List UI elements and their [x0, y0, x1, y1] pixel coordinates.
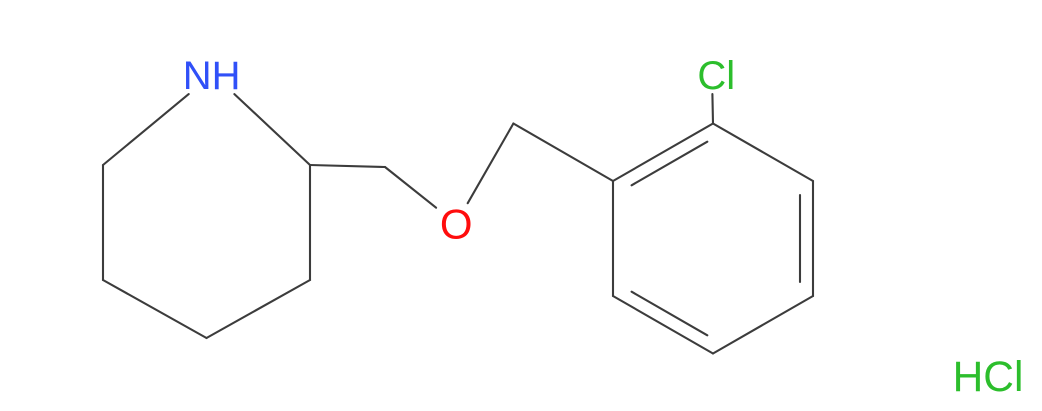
- svg-text:Cl: Cl: [697, 54, 735, 98]
- svg-text:HCl: HCl: [953, 354, 1024, 401]
- svg-text:O: O: [440, 201, 473, 248]
- svg-text:NH: NH: [183, 54, 241, 98]
